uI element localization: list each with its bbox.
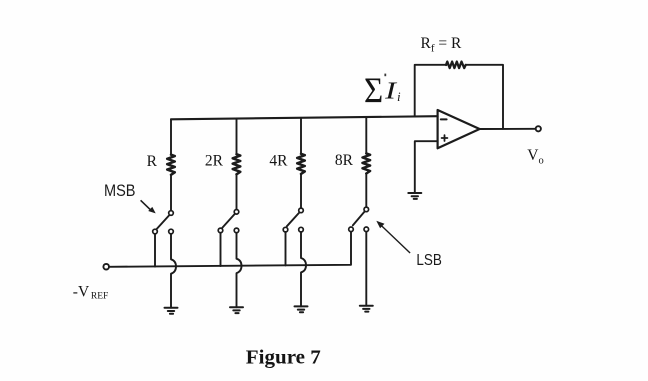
svg-text:Figure 7: Figure 7 [246,346,321,368]
wire S3 right contact to ground (hop over bus) [301,232,306,306]
svg-text:-V: -V [73,283,90,300]
wire S1 right contact to ground (hop over bus) [171,234,176,308]
wire S4 right contact to ground [365,232,367,306]
switch S2 left throw contact [218,228,223,233]
wire S2 left contact to -Vref bus [220,233,222,266]
switch S4 pole contact [364,207,369,212]
ground G1 (below switch S1) [165,308,178,314]
switch S1 (MSB) blade [157,215,169,229]
wire non-inverting input to ground [415,141,438,193]
stray prime mark above sum [384,74,386,77]
wire branch 2 vertical (bus to resistor 2R) [236,119,238,155]
switch S2 blade [222,214,234,228]
svg-text:R: R [147,153,158,170]
wire branch 1 vertical (bus to resistor R) [170,119,172,154]
svg-text:4R: 4R [269,152,288,169]
switch S2 pole contact [234,210,239,215]
arrow LSB pointing to switch S4 [376,221,410,253]
arrow MSB pointing to switch S1 [141,200,156,213]
ground G3 (below switch S3) [295,306,308,312]
switch S3 pole contact [299,208,304,213]
op-amp inverting input marker [441,118,447,120]
svg-text:i: i [397,89,401,104]
switch S2 right throw contact [234,228,239,233]
wire branch 1 (resistor to switch) [170,175,172,211]
wire branch 4 (resistor to switch) [365,174,367,207]
wire S3 left contact to -Vref bus [285,232,287,265]
wire summing bus (top horizontal line to op-amp inverting input) [171,116,438,119]
wire branch 4 vertical (bus to resistor 8R) [365,117,367,153]
ground G5 (op-amp non-inverting input) [408,193,421,199]
terminal -Vref (open circle) [103,264,109,270]
resistor 8R [363,153,371,173]
op-amp non-inverting input marker [442,135,448,141]
svg-text:Rf = R: Rf = R [421,35,463,55]
svg-text:Σ: Σ [364,70,383,110]
wire S1 left contact to -Vref bus [154,234,156,266]
terminal Vo (open circle) [536,126,541,131]
wire S2 right contact to ground (hop over bus) [237,233,242,307]
wire branch 3 vertical (bus to resistor 4R) [300,118,302,154]
switch S1 pole contact [169,211,174,216]
wire op-amp output [480,128,536,130]
resistor Rf [446,62,466,69]
svg-text:LSB: LSB [416,252,442,269]
svg-text:MSB: MSB [104,181,136,200]
resistor R [167,155,175,175]
switch S4 right throw contact [364,227,369,232]
svg-text:I: I [384,78,398,104]
switch S3 blade [287,213,299,227]
wire -Vref bus (horizontal, corner up to S4 left contact) [109,232,351,267]
ground G4 (below switch S4) [360,306,373,312]
wire branch 2 (resistor to switch) [236,174,238,209]
svg-text:REF: REF [91,291,108,301]
wire branch 3 (resistor to switch) [300,174,302,208]
svg-text:Vo: Vo [527,147,543,166]
op-amp U1 triangle [438,110,480,148]
switch S4 (LSB) blade [353,212,365,226]
resistor 2R [233,154,241,174]
wire feedback loop (left riser, top run, right riser to output) [415,65,503,129]
switch S3 left throw contact [283,227,288,232]
switch S1 left throw contact [153,229,158,234]
resistor 4R [297,154,305,174]
switch S3 right throw contact [299,227,304,232]
switch S4 left throw contact [349,227,354,232]
ground G2 (below switch S2) [230,307,243,313]
svg-text:2R: 2R [205,153,224,170]
switch S1 right throw contact [169,229,174,234]
svg-text:8R: 8R [335,152,354,169]
